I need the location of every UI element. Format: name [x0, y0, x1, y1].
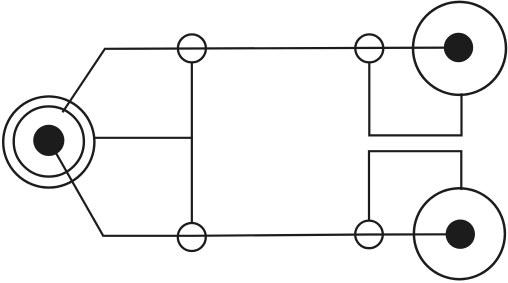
jack J1 sleeve (outer circle) — [3, 96, 94, 187]
RCA plug P1 center pin (filled dot) — [444, 33, 473, 62]
wire: jack sleeve middle horizontal to shield node — [94, 137, 193, 139]
jack J1 ring (middle circle) — [14, 106, 84, 176]
wire: bottom RCA shield loop (up, right, down to bottom plug barrel) — [369, 151, 461, 221]
cable conductor node, top left — [178, 34, 206, 62]
cable conductor node, bottom right — [355, 221, 383, 249]
RCA plug P1 barrel (top right circle) — [413, 2, 506, 95]
jack J1 tip contact (filled dot) — [33, 125, 64, 156]
wire: jack tip to bottom conductor (diagonal + bottom horizontal run) — [49, 140, 458, 235]
RCA plug P2 center pin (filled dot) — [446, 220, 475, 249]
RCA plug P2 barrel (bottom right circle) — [414, 188, 505, 279]
cable conductor node, bottom left — [178, 223, 206, 251]
wire: jack ring to top conductor (diagonal + top horizontal run) — [63, 48, 457, 113]
wire: shield vertical bus between top and bottom cable circles — [191, 62, 193, 224]
wire: top RCA shield loop (down, right, up to top plug barrel) — [369, 62, 461, 136]
cable conductor node, top right — [355, 34, 383, 62]
